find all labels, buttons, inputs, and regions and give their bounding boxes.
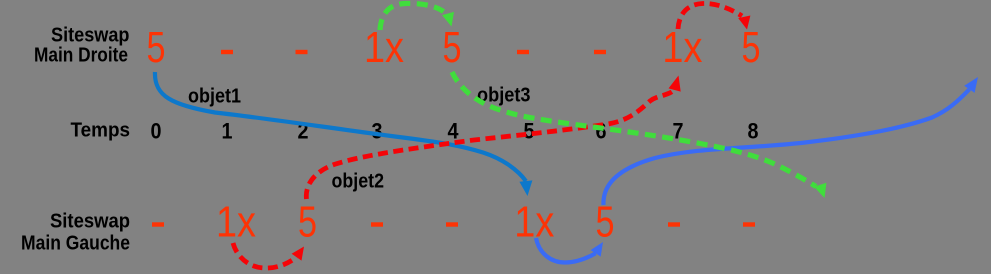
svg-text:Temps: Temps [71, 120, 131, 142]
arrowhead of green curve objet3 [814, 183, 826, 198]
svg-text:objet1: objet1 [188, 86, 241, 108]
bottom siteswap dash (beat 8) [743, 222, 755, 226]
svg-text:5: 5 [147, 23, 166, 72]
arrowhead of blue curve objet1 [519, 180, 532, 196]
bottom siteswap dash (beat 7) [668, 222, 680, 226]
bottom siteswap dash (beat 4) [446, 222, 458, 226]
svg-text:objet2: objet2 [332, 171, 385, 193]
svg-text:0: 0 [151, 119, 162, 144]
svg-text:1x: 1x [364, 23, 404, 72]
wire: blue arc 1x (beat 5 bottom to beat 6 bottom) [536, 238, 596, 263]
arrowhead of green arch [442, 12, 454, 27]
wire: green dashed arch 1x (beat 3 top to beat 4 top) [380, 3, 444, 30]
svg-text:3: 3 [372, 119, 383, 144]
svg-text:6: 6 [596, 119, 607, 144]
svg-text:objet3: objet3 [477, 85, 531, 107]
arrowhead of blue arc [591, 242, 603, 257]
arrowhead of red arch [738, 16, 750, 30]
svg-text:5: 5 [742, 23, 761, 72]
svg-text:Main Droite: Main Droite [34, 45, 128, 67]
arrowhead of red arc [292, 247, 304, 261]
svg-text:1x: 1x [662, 23, 702, 72]
svg-text:Main Gauche: Main Gauche [21, 233, 130, 255]
svg-text:8: 8 [748, 119, 759, 144]
svg-text:1x: 1x [216, 198, 256, 247]
top siteswap dash (beat 1) [221, 50, 233, 54]
svg-text:5: 5 [443, 23, 462, 72]
svg-text:Siteswap: Siteswap [51, 25, 130, 47]
wire: green dashed curve objet3 (throw 5, beat 4 top to beat 9 bottom) [452, 72, 816, 187]
top siteswap dash (beat 5) [517, 50, 529, 54]
wire: red dashed arc 1x (beat 1 bottom to beat 2 bottom) [233, 243, 297, 268]
arrowhead of red curve objet2 [669, 76, 681, 92]
svg-text:5: 5 [524, 119, 535, 144]
bottom siteswap dash (beat 3) [371, 222, 383, 226]
wire: blue curve (throw 5, beat 6 bottom off to the right) [603, 89, 969, 205]
wire: blue curve objet1 (throw 5, beat 0 top to beat 5 bottom) [155, 72, 526, 181]
svg-text:Siteswap: Siteswap [50, 211, 130, 233]
svg-text:5: 5 [298, 198, 317, 247]
top siteswap dash (beat 6) [594, 50, 606, 54]
top siteswap dash (beat 2) [296, 50, 308, 54]
wire: red dashed arch 1x (beat 7 top to beat 8 top) [678, 3, 742, 29]
svg-text:1: 1 [222, 119, 233, 144]
wire: red dashed curve objet2 (throw 5, beat 2 bottom to beat 7 top) [306, 90, 674, 199]
bottom siteswap dash (beat 0) [152, 222, 164, 226]
arrowhead of long blue curve [964, 77, 978, 93]
svg-text:4: 4 [448, 119, 460, 144]
